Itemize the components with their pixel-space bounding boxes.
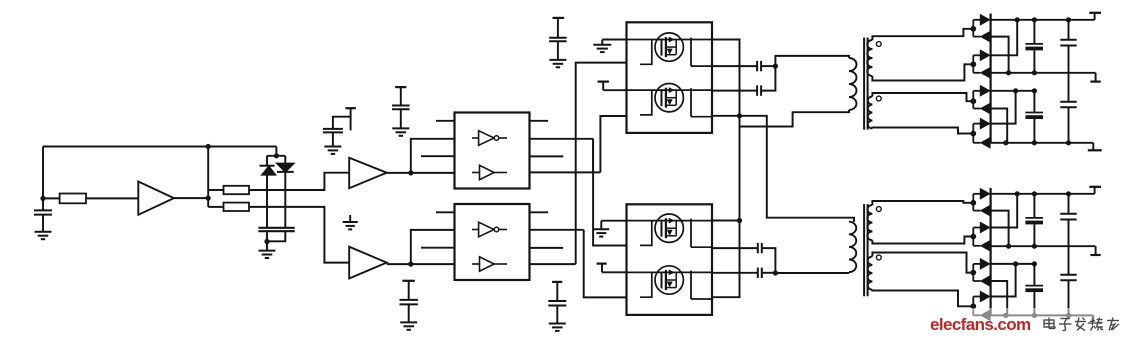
wire R2 to buffer A2	[249, 173, 349, 190]
wire feedback riser	[207, 147, 209, 207]
watermark chinese text	[1044, 318, 1119, 331]
wire bus top	[712, 40, 740, 298]
buffer A3	[349, 247, 387, 279]
transformer TR1 sec1	[867, 40, 872, 76]
capacitor CE dn g1	[1025, 91, 1043, 143]
wire out rail A g1	[991, 90, 1035, 92]
wire jog1 g2	[991, 211, 1009, 247]
wire U2.6	[530, 229, 584, 231]
capacitor C15	[758, 268, 762, 278]
capacitor C14	[758, 243, 762, 253]
wire S1 jog	[333, 117, 351, 129]
wire TR1 sec1 top	[872, 29, 973, 40]
wire U4 pin7	[712, 247, 758, 249]
wire D1 top	[266, 156, 268, 166]
capacitor CE dn g2	[1025, 264, 1043, 316]
transformer TR1 sec2	[868, 97, 873, 129]
wire jog4 g1	[991, 91, 1016, 124]
transformer TR2 primary	[849, 222, 856, 272]
capacitor CE up g2	[1025, 194, 1043, 246]
pin U1.7 stub	[530, 155, 564, 157]
terminal S5	[552, 282, 562, 301]
wire U3 pin7	[712, 65, 757, 67]
capacitor C12	[757, 61, 761, 71]
node A2 output	[408, 170, 413, 175]
wire out rail A g2	[991, 263, 1035, 265]
capacitor C13	[757, 85, 761, 95]
terminal T1	[598, 82, 627, 91]
wire C1 to R1	[43, 197, 60, 199]
terminal out3 g1	[1088, 143, 1102, 151]
node rt3 g2	[1066, 191, 1071, 196]
wire U3 pin8 tie	[712, 115, 740, 117]
transistor Q4	[627, 266, 713, 299]
ground C11	[549, 324, 566, 331]
wire 600 to U3 pin4	[600, 116, 626, 172]
ground C8	[392, 128, 409, 135]
terminal out1 g2	[1089, 187, 1101, 194]
node rB3 g2	[1066, 313, 1071, 318]
capacitor C1	[34, 210, 52, 231]
pin U1.3 stub	[421, 155, 455, 157]
diode pair DP4	[970, 118, 990, 149]
wire bus 575 to U3 pin2	[576, 63, 627, 265]
wire TR1 sec1 bottom	[872, 64, 973, 80]
wire feedback drop	[275, 147, 277, 156]
driver U1	[455, 113, 530, 189]
transformer TR1 primary	[849, 58, 856, 110]
capacitor C10	[400, 300, 418, 323]
module U3	[627, 22, 713, 133]
wire U2.2 riser	[411, 230, 455, 264]
ground C9	[549, 60, 566, 67]
transformer TR2 sec1	[867, 205, 872, 240]
wire jog3 g1	[991, 109, 1008, 143]
wire to TR2 bottom	[775, 271, 849, 274]
terminal out3 g2	[1088, 315, 1102, 323]
node rA2 g1	[1032, 88, 1037, 93]
wire out rail B g1	[991, 142, 1094, 144]
node rA1 g2	[1013, 261, 1018, 266]
capacitor CP dn g2	[1060, 275, 1076, 316]
capacitor C9	[549, 38, 567, 60]
wire C2 right leg	[267, 231, 285, 241]
wire U2.8	[530, 263, 576, 265]
terminal out2 g2	[1090, 246, 1100, 255]
wire jog2 g1	[991, 20, 1018, 56]
resistor R3	[224, 203, 250, 211]
wire D1 bottom	[266, 175, 268, 228]
wire TR2 sec1 bottom	[872, 237, 973, 244]
wire C13 up	[761, 66, 775, 91]
ground C1	[35, 232, 52, 239]
pin U1.5 stub	[530, 120, 549, 122]
node C2 bottom	[264, 239, 269, 244]
node bus b	[737, 218, 742, 223]
node rt2 g1	[1032, 17, 1037, 22]
ground C7	[324, 147, 341, 154]
wire D2 bottom	[284, 172, 286, 228]
watermark backdrop	[952, 308, 1134, 335]
capacitor CP dn g1	[1060, 102, 1076, 143]
node TR1 sec2 phase	[876, 96, 881, 101]
wire feedback top	[43, 146, 276, 148]
wire out rail B g2	[991, 314, 1094, 316]
ground U3 gate1	[593, 45, 611, 52]
pin U2.7 stub	[530, 247, 564, 249]
capacitor C11	[548, 301, 566, 324]
wire 583 to U4 pin4	[584, 230, 627, 298]
wire bank1 rail	[989, 14, 991, 144]
pin U1.1 stub	[436, 120, 455, 122]
wire U1.6	[530, 138, 594, 140]
wire U1.8	[530, 171, 601, 173]
wire U1 out link	[592, 139, 594, 173]
wire C2 left leg	[266, 231, 268, 250]
op-amp A1	[138, 182, 174, 215]
transistor Q2	[627, 84, 713, 117]
driver U2	[455, 204, 530, 280]
wire bus to TR2 top	[740, 116, 855, 222]
ground C10	[400, 322, 417, 329]
wire jog3 g2	[991, 281, 1008, 315]
node rt3 g1	[1066, 17, 1071, 22]
ground U4 gate1	[593, 229, 609, 236]
watermark elecfans.com	[930, 315, 1134, 339]
diode pair DP8	[970, 291, 990, 322]
node A3 output	[408, 262, 413, 267]
wire jog4 g2	[991, 264, 1016, 297]
wire U3 pin6	[712, 90, 757, 92]
transformer TR2 sec2	[868, 257, 873, 290]
terminal out1 g1	[1089, 13, 1101, 20]
node rB3 g1	[1066, 140, 1071, 145]
wire jog1 g1	[991, 37, 1009, 73]
wire 593 to U4 pin2	[593, 139, 626, 246]
wire D2 top	[284, 156, 286, 164]
diode pair DP1	[970, 14, 990, 43]
capacitor CP up g1	[1060, 20, 1076, 102]
wire U4 pin1 gnd	[601, 221, 626, 230]
capacitor C2	[258, 228, 294, 231]
wire TR2 sec2 top	[872, 253, 973, 273]
node rA1 g1	[1013, 88, 1018, 93]
wire out mid rail g1	[991, 72, 1096, 74]
wire to R2	[208, 189, 223, 191]
wire A2 out to U1.4	[387, 172, 455, 174]
node rB1 g1	[1003, 140, 1008, 145]
capacitor CE up g1	[1025, 20, 1043, 73]
pin U2.3 stub	[421, 247, 455, 249]
node TR2 sec2 phase	[876, 255, 881, 260]
terminal S2	[395, 87, 406, 105]
node rt1 g2	[1015, 191, 1020, 196]
node rm2 g2	[1032, 244, 1037, 249]
capacitor C8	[392, 106, 410, 129]
resistor R2	[224, 186, 250, 194]
diode D1	[260, 166, 276, 175]
node TR2 sec1 phase	[876, 207, 881, 212]
wire U1.2 riser	[411, 139, 455, 173]
diode pair DP7	[970, 258, 990, 287]
module U4	[627, 204, 713, 315]
diode pair DP6	[970, 222, 990, 252]
diode pair DP3	[970, 85, 990, 115]
wire TR2 sec2 bottom	[872, 290, 973, 307]
wire amp output	[174, 197, 208, 199]
terminal S1	[345, 108, 356, 130]
wire to R3	[208, 206, 223, 208]
node amp output	[206, 196, 211, 201]
node input junction	[40, 196, 45, 201]
node rB1 g2	[1003, 313, 1008, 318]
transistor Q3	[627, 214, 713, 247]
node rB2 g2	[1032, 313, 1037, 318]
wire left vertical input node	[42, 147, 44, 211]
wire U3 pin1 gnd	[602, 40, 626, 45]
wire out mid rail g2	[991, 245, 1096, 247]
diode pair DP5	[970, 188, 990, 217]
wire C12 out	[761, 65, 775, 67]
wire TR1 sec2 bottom	[872, 128, 973, 134]
core TR2	[864, 204, 868, 296]
wire TR1 sec2 top	[872, 93, 973, 101]
pin U2.5 stub	[530, 211, 549, 213]
pin U2.1 stub	[436, 211, 455, 213]
inverter U1b	[472, 165, 507, 179]
node bus a	[737, 113, 742, 118]
node clamp top	[274, 153, 279, 158]
node TR1 sec1 phase	[876, 42, 881, 47]
diode D2	[277, 163, 294, 172]
node rm1 g1	[1006, 70, 1011, 75]
terminal T2	[597, 264, 627, 273]
resistor R1	[60, 194, 86, 204]
wire R1 to amp	[86, 197, 138, 199]
node rt1 g1	[1015, 17, 1020, 22]
wire to TR1 top	[775, 56, 849, 66]
terminal S4	[402, 281, 414, 300]
node rB2 g1	[1032, 140, 1037, 145]
node rm1 g2	[1006, 244, 1011, 249]
wire C14 jog	[762, 248, 776, 273]
ground G1	[343, 215, 358, 229]
wire bus to TR1 bottom	[740, 110, 850, 127]
ground C2	[259, 251, 276, 258]
diode pair DP2	[970, 49, 990, 79]
wire out rail top g1	[991, 19, 1095, 21]
node C12	[773, 64, 778, 69]
buffer A2	[349, 158, 387, 188]
transistor Q1	[627, 33, 713, 66]
inverter U2b	[472, 257, 507, 271]
inverter U1a	[472, 131, 507, 146]
wire C15 out	[762, 272, 776, 274]
node rt2 g2	[1032, 191, 1037, 196]
wire TR2 sec1 top	[872, 201, 973, 205]
node feedback tap	[206, 144, 211, 149]
node C15	[773, 270, 778, 275]
wire A3 out to U2.4	[387, 263, 455, 265]
node rm2 g1	[1032, 70, 1037, 75]
wire R3 to buffer A3	[249, 207, 349, 263]
wire out rail top g2	[991, 193, 1095, 195]
wire U4 pin5 tie	[712, 220, 740, 222]
terminal out2 g1	[1090, 73, 1100, 82]
core TR1	[864, 38, 868, 130]
node rA2 g2	[1032, 261, 1037, 266]
wire bank2 rail	[989, 188, 991, 316]
terminal S3	[553, 18, 565, 38]
inverter U2a	[472, 222, 507, 237]
wire clamp rail	[267, 155, 285, 157]
wire jog2 g2	[991, 194, 1018, 228]
wire U4 pin6	[712, 272, 758, 274]
capacitor CP up g2	[1060, 194, 1076, 275]
capacitor C7	[323, 129, 343, 147]
